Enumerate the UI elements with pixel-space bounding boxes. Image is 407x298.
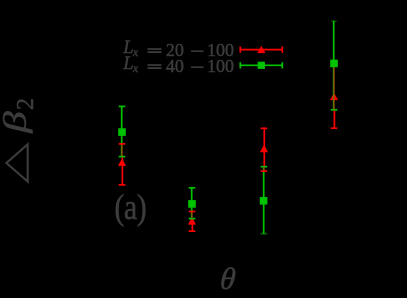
svg-text:2: 2 — [13, 98, 39, 110]
svg-text:β: β — [0, 111, 33, 134]
